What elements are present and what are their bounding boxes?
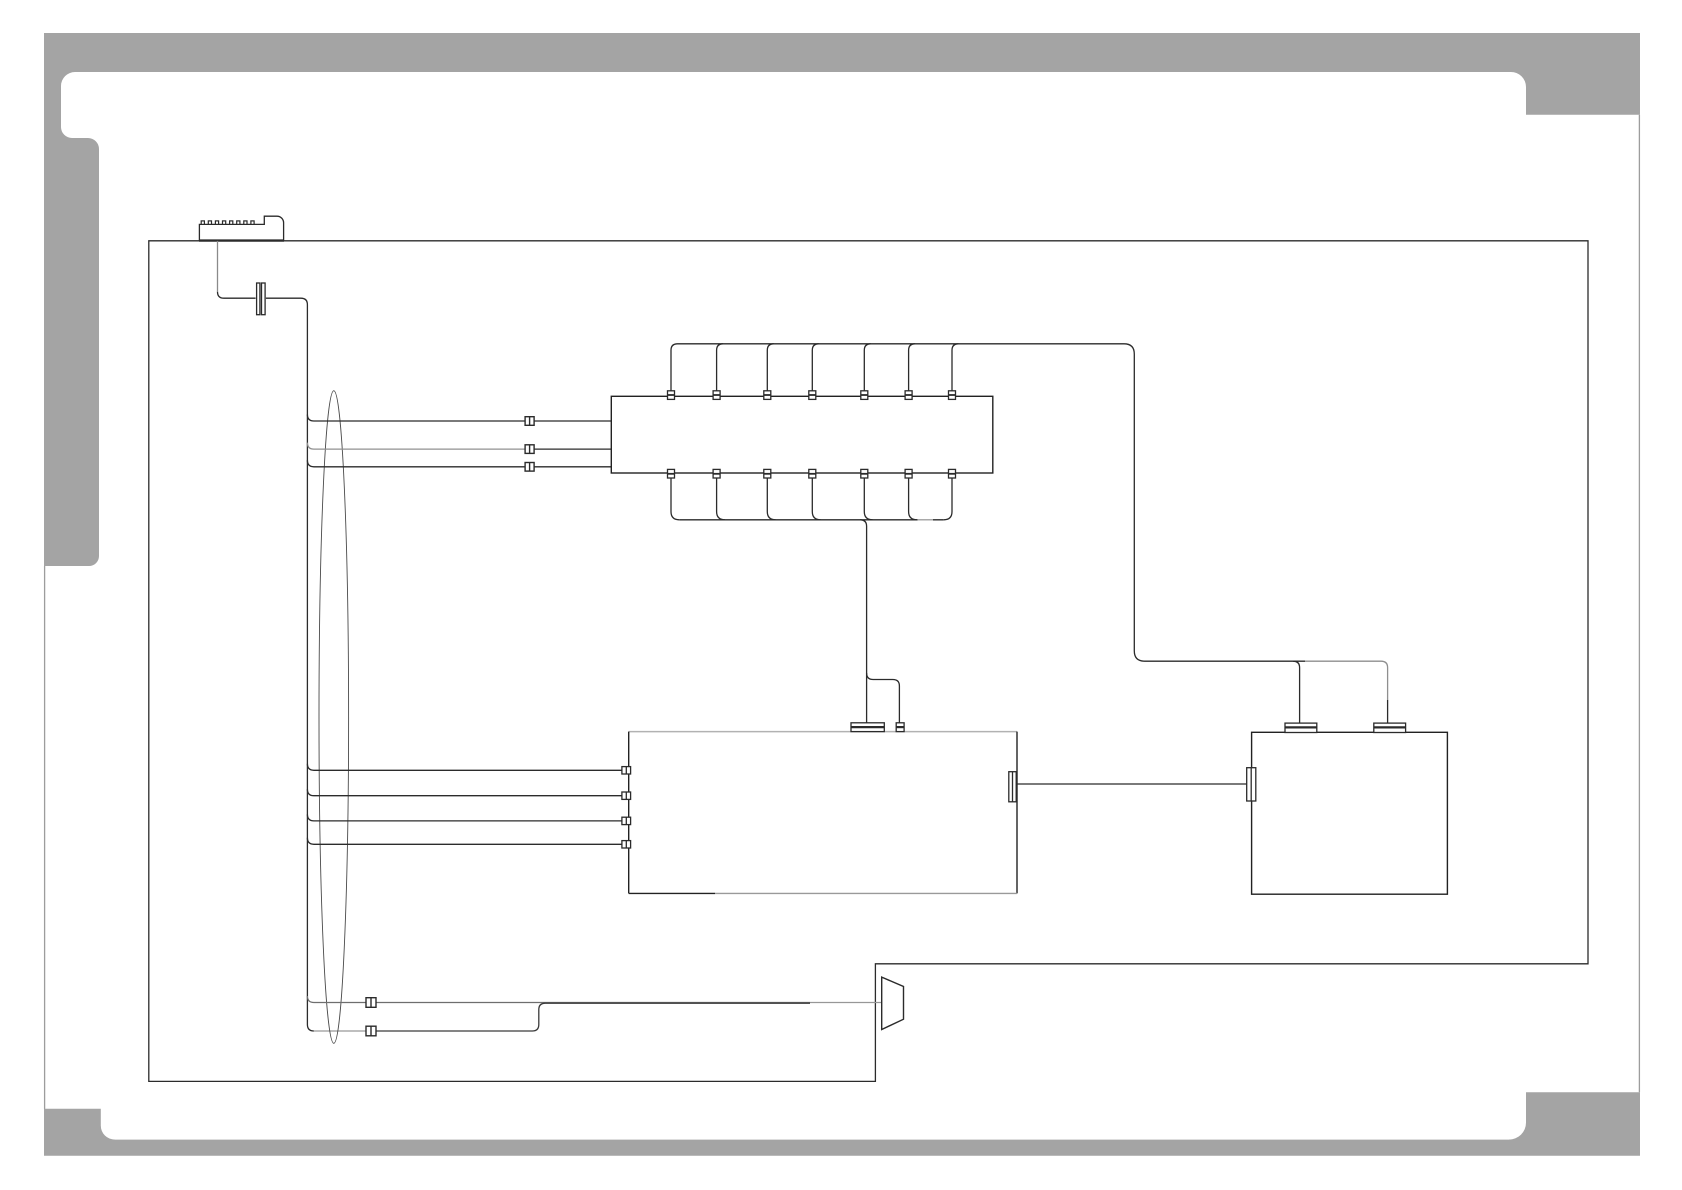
wire bundle trunk (218, 292, 314, 1031)
wire W6 to main module (307, 814, 622, 821)
display module box (611, 396, 993, 473)
top pads of display module (668, 391, 956, 400)
top bus gray tail to battery connector 2 (1305, 661, 1388, 700)
capacitor C1 backing (256, 283, 266, 316)
capacitor C1 plate 1 (257, 283, 260, 315)
main module box (629, 732, 1017, 894)
branch to small pad (867, 673, 900, 723)
main module left pad 2 (622, 792, 631, 799)
page frame bottom band (44, 1140, 1640, 1156)
main module right edge (1016, 732, 1018, 894)
wire W2 to display module (gray) (307, 443, 525, 450)
page frame bottom-right block (1509, 1092, 1640, 1141)
page frame top-right block (1511, 71, 1640, 115)
main module left pad 1 (622, 767, 631, 774)
bottom bus line (679, 519, 943, 521)
bottom pads of display module (668, 469, 956, 478)
main module bottom edge dark part (629, 892, 715, 894)
capacitor C1 plate 2 (262, 283, 266, 315)
wire J1 to capacitor (gray drop) (217, 241, 219, 292)
inline connector on W8 (366, 998, 376, 1008)
wire A drop to battery module (1293, 661, 1300, 723)
page frame right thin edge (1638, 115, 1640, 1092)
flex cable loop ellipse (319, 391, 349, 1044)
wire W5 to main module (307, 789, 622, 796)
wire main module to battery module (1017, 783, 1247, 785)
battery module box (1252, 732, 1448, 894)
main module big top connector (851, 723, 884, 732)
inline connector on W1 (525, 417, 534, 426)
connector J1 (top edge, toothed) (199, 216, 283, 241)
main module left edge (628, 732, 630, 894)
main module bottom edge gray part (715, 892, 1017, 894)
page frame top band (44, 33, 1640, 72)
main module top edge (light) (629, 731, 1017, 733)
wire W9 to speaker (376, 1003, 810, 1031)
wire W8 to speaker (307, 996, 810, 1003)
top bus routed to battery module (678, 344, 1306, 661)
main board outline (stepped rectangle) (149, 241, 1588, 1082)
wire W7 to main module (307, 838, 622, 845)
battery module top connector 1 (1285, 723, 1317, 732)
page frame left thin edge (44, 566, 46, 1109)
inline connector on W2 (525, 445, 534, 454)
wire W3 to display module (307, 460, 612, 467)
main module left pad 3 (622, 817, 631, 824)
inline connector on W3 (525, 463, 534, 472)
wire W9 gray stub (314, 1030, 366, 1032)
inline connector on W9 (366, 1026, 376, 1036)
bottom bus gray segment (918, 519, 934, 521)
wire W1 to display module (307, 415, 612, 422)
wire W2 right segment (534, 448, 612, 450)
bottom bus wires descending from pads (671, 478, 952, 520)
main module small top connector (896, 723, 904, 732)
page frame bottom-left block (44, 1109, 115, 1141)
top bus wires rising from pads (671, 344, 959, 391)
wire W4 to main module (307, 764, 622, 771)
connector J1 base line (199, 239, 284, 241)
battery module left connector (1247, 768, 1256, 801)
page frame top-left column with tab slot (44, 71, 99, 567)
battery module top connector 2 (1374, 723, 1406, 732)
wire W8 gray segment (810, 1002, 882, 1004)
connector J1 teeth (201, 221, 254, 225)
main module right connector (1009, 772, 1016, 802)
bus tap down to main module (860, 520, 867, 723)
speaker SP1 (882, 977, 904, 1029)
main module left pad 4 (622, 841, 631, 848)
